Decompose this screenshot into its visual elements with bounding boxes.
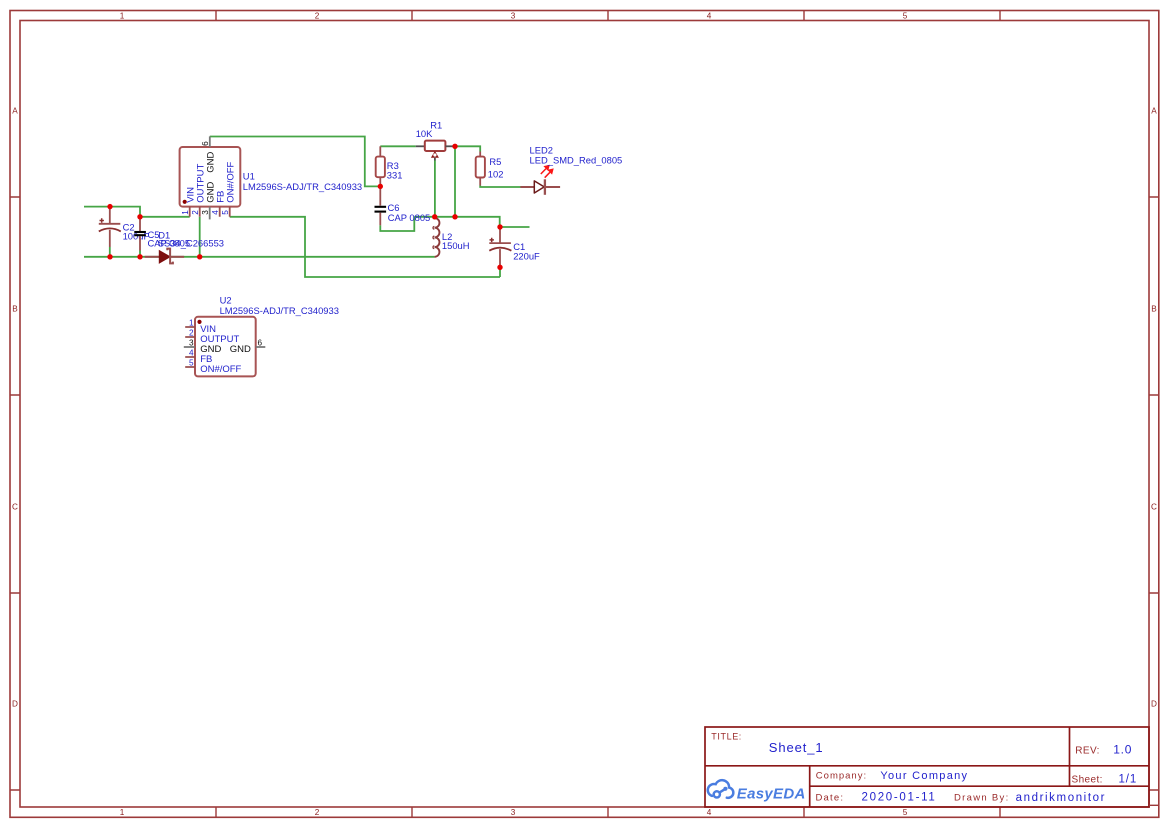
inductor L2	[435, 218, 440, 257]
wire: U1 pin5 to C1 negative rail	[230, 217, 500, 277]
svg-text:Drawn By:: Drawn By:	[954, 792, 1010, 803]
svg-text:2: 2	[315, 808, 320, 817]
svg-text:2020-01-11: 2020-01-11	[862, 792, 937, 804]
svg-text:3: 3	[511, 11, 516, 20]
wire: U1 pin2 to bottom rail	[199, 217, 201, 257]
title block row divider 1	[705, 765, 1149, 767]
svg-text:5: 5	[903, 808, 908, 817]
junction dot L2 top	[432, 214, 437, 219]
svg-text:5: 5	[221, 210, 230, 215]
potentiometer R1	[416, 141, 453, 161]
svg-text:A: A	[12, 106, 18, 115]
svg-text:5: 5	[189, 358, 194, 367]
junction dot U1 pin2 rail	[197, 254, 202, 259]
capacitor C1	[489, 227, 511, 267]
svg-text:D: D	[1151, 699, 1157, 708]
svg-text:1/1: 1/1	[1119, 773, 1138, 785]
svg-text:2: 2	[191, 210, 200, 215]
frame row letters left	[12, 106, 18, 708]
junction dot C5 bottom	[137, 254, 142, 259]
svg-text:TITLE:: TITLE:	[711, 731, 742, 741]
junction dot input top	[107, 204, 112, 209]
frame column numbers top	[120, 11, 908, 20]
wire: C1 bottom to negative rail	[499, 267, 501, 277]
svg-text:U1: U1	[243, 171, 255, 182]
svg-text:ON#/OFF: ON#/OFF	[225, 161, 236, 202]
U1 pin names	[185, 151, 236, 202]
wire: U1 pin6 to feedback node	[210, 137, 380, 187]
svg-text:150uH: 150uH	[442, 240, 470, 251]
wire: bottom ground rail	[84, 256, 435, 258]
wire: stub right of C1 top	[500, 226, 530, 228]
svg-text:C: C	[12, 502, 18, 511]
U2 pin names	[200, 324, 251, 375]
title block REV/Sheet cell divider	[1069, 727, 1071, 786]
svg-text:220uF: 220uF	[513, 250, 540, 261]
svg-text:Company:: Company:	[816, 771, 867, 782]
svg-text:Sheet:: Sheet:	[1072, 774, 1103, 785]
junction dot feedback node	[378, 184, 383, 189]
wire: R3 top to R1 left	[380, 145, 415, 147]
title block logo cell divider	[809, 766, 811, 807]
svg-text:4: 4	[707, 11, 712, 20]
title block border	[705, 727, 1149, 807]
svg-text:4: 4	[211, 210, 220, 215]
svg-text:Sheet_1: Sheet_1	[769, 740, 824, 755]
wire: R5 bottom to LED anode	[480, 186, 521, 188]
frame column ticks top	[216, 11, 1000, 21]
capacitor C6	[375, 186, 387, 225]
IC U2 LM2596S	[184, 317, 265, 377]
svg-text:5: 5	[903, 11, 908, 20]
svg-text:2: 2	[189, 328, 194, 337]
svg-text:1: 1	[120, 808, 125, 817]
svg-text:ON#/OFF: ON#/OFF	[200, 364, 241, 375]
svg-text:4: 4	[189, 348, 194, 357]
capacitor C5	[134, 217, 146, 251]
junction dot output rail R1 leg	[452, 214, 457, 219]
wire: R1 right to R5 top	[455, 146, 480, 151]
capacitor C2	[99, 207, 121, 247]
svg-text:6: 6	[258, 338, 263, 347]
wire: output node rail to C1 top	[414, 217, 499, 227]
frame row ticks left	[10, 197, 20, 790]
wire: input top rail to C2/C5	[84, 207, 190, 217]
junction dot C2 bottom	[107, 254, 112, 259]
wire: R1 wiper down to output rail	[434, 160, 436, 217]
svg-text:andrikmonitor: andrikmonitor	[1016, 792, 1106, 804]
svg-text:C: C	[1151, 502, 1157, 511]
IC U1 LM2596S (rotated)	[180, 136, 241, 219]
svg-text:CAP 0805: CAP 0805	[388, 212, 431, 223]
junction dot R1 right	[452, 144, 457, 149]
U2 pin numbers	[189, 318, 262, 367]
wire: C6 bottom jog to output node	[380, 217, 414, 231]
svg-text:REV:: REV:	[1075, 745, 1100, 756]
EasyEDA logo cloud	[708, 780, 734, 798]
frame column ticks bottom	[216, 807, 1000, 817]
svg-text:D: D	[12, 699, 18, 708]
svg-text:10K: 10K	[416, 128, 433, 139]
junction dot C5 top	[137, 214, 142, 219]
svg-text:B: B	[12, 304, 18, 313]
frame column numbers bottom	[120, 808, 908, 817]
svg-text:LM2596S-ADJ/TR_C340933: LM2596S-ADJ/TR_C340933	[243, 181, 362, 192]
svg-text:3: 3	[511, 808, 516, 817]
svg-text:Your Company: Your Company	[880, 770, 968, 782]
svg-text:Date:: Date:	[816, 792, 845, 803]
svg-text:1: 1	[120, 11, 125, 20]
svg-text:3: 3	[201, 210, 210, 215]
svg-text:R5: R5	[489, 156, 501, 167]
diode D1	[145, 249, 184, 264]
wire: C5 bottom segment	[139, 251, 141, 257]
svg-text:1: 1	[181, 210, 190, 215]
svg-text:GND: GND	[205, 151, 216, 172]
svg-text:GND: GND	[230, 344, 251, 355]
svg-text:EasyEDA: EasyEDA	[737, 786, 806, 803]
svg-text:6: 6	[201, 141, 210, 146]
frame bottom right connector	[1149, 804, 1159, 806]
svg-text:4: 4	[707, 808, 712, 817]
resistor R3	[376, 146, 385, 186]
resistor R5	[476, 152, 485, 186]
svg-text:SS34_C266553: SS34_C266553	[158, 238, 224, 249]
wire: R1 right down to output rail	[454, 146, 456, 217]
U1 pin numbers	[181, 141, 230, 215]
frame row ticks right	[1149, 197, 1159, 790]
svg-text:331: 331	[387, 170, 403, 181]
junction dot C1 bottom	[497, 265, 502, 270]
svg-text:102: 102	[488, 169, 504, 180]
svg-text:1.0: 1.0	[1113, 743, 1132, 757]
wire: C2 bottom segment	[109, 247, 111, 257]
LED LED2	[520, 166, 560, 195]
junction dot C1 top	[497, 224, 502, 229]
svg-text:1: 1	[189, 318, 194, 327]
svg-text:3: 3	[189, 338, 194, 347]
svg-text:2: 2	[315, 11, 320, 20]
frame row letters right	[1151, 106, 1157, 708]
svg-text:LM2596S-ADJ/TR_C340933: LM2596S-ADJ/TR_C340933	[220, 305, 339, 316]
svg-text:LED_SMD_Red_0805: LED_SMD_Red_0805	[530, 155, 623, 166]
svg-text:A: A	[1151, 106, 1157, 115]
svg-text:B: B	[1151, 304, 1157, 313]
title block row divider 2	[810, 785, 1149, 787]
svg-text:U2: U2	[220, 295, 232, 306]
